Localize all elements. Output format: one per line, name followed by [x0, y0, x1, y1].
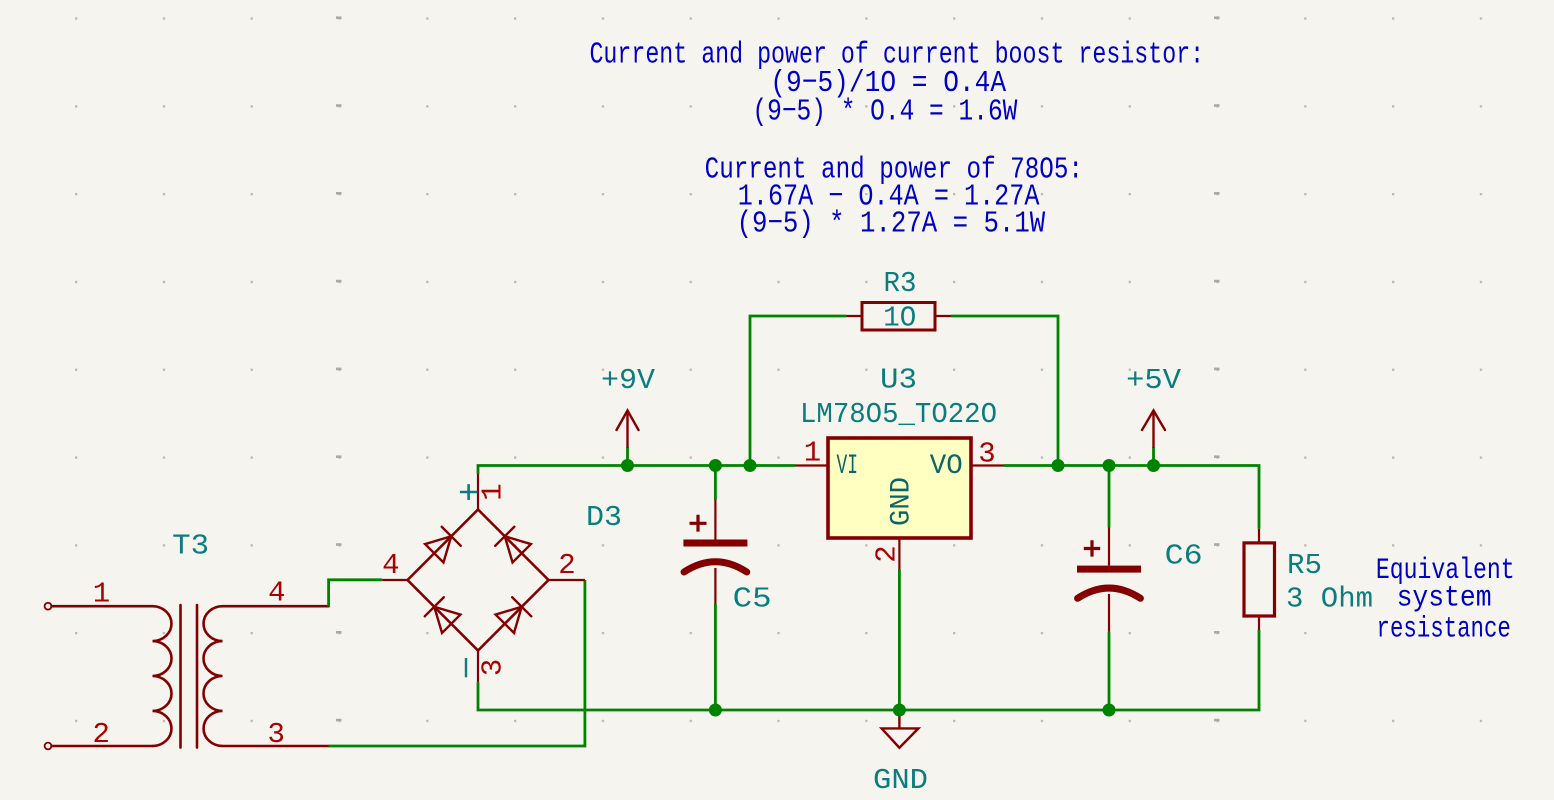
svg-text:2: 2 [870, 545, 903, 562]
junction at GND [893, 704, 906, 717]
bridge diode (2 to 1) [495, 527, 531, 563]
R5 pin stubs [1258, 529, 1260, 630]
svg-text:1: 1 [477, 483, 510, 500]
bridge pin 2 stub [549, 579, 585, 581]
junction at +5V / top rail [1147, 459, 1160, 472]
note: 7805 calculations [705, 153, 1083, 242]
resistor R5 [1244, 543, 1275, 616]
wire: R3 right branch [951, 316, 1058, 466]
wire: T3 pin3 to bridge AC input 2 [329, 580, 585, 746]
junction at R3 right branch [1052, 459, 1065, 472]
R3 pin stubs [846, 315, 951, 317]
svg-text:system: system [1397, 582, 1492, 616]
svg-text:2: 2 [92, 718, 109, 751]
wire: C5 top stub [714, 466, 717, 501]
capacitor C5 [683, 500, 747, 604]
junction at R3 left branch [744, 459, 757, 472]
wire: +9V stub [626, 447, 629, 466]
svg-text:R5: R5 [1287, 549, 1322, 582]
svg-text:1: 1 [804, 437, 821, 470]
svg-text:(9−5) * 1.27A = 5.1W: (9−5) * 1.27A = 5.1W [737, 206, 1046, 241]
power symbol +5V [1142, 411, 1165, 448]
svg-text:+9V: +9V [601, 364, 656, 397]
wire: bridge - output to bottom rail [478, 630, 1259, 710]
svg-text:1: 1 [93, 578, 110, 611]
bridge pin 4 stub [382, 579, 407, 581]
svg-text:1O: 1O [883, 301, 916, 334]
svg-text:GND: GND [887, 477, 918, 526]
svg-text:U3: U3 [880, 364, 917, 397]
svg-text:2: 2 [558, 549, 575, 582]
ground symbol GND [882, 710, 919, 748]
wire: T3 pin4 to bridge AC input [329, 580, 383, 606]
bridge diode (4 to 1) [425, 527, 461, 563]
bridge minus mark [465, 658, 467, 677]
wire: C6 top stub [1108, 466, 1111, 528]
resistor R3 [862, 303, 935, 331]
wire: R3 left branch [750, 316, 846, 466]
note: current boost resistor calculations [589, 38, 1204, 130]
bridge plus mark [460, 484, 478, 500]
junction at C5 top [709, 459, 722, 472]
wire: +5V stub [1152, 447, 1155, 466]
transformer T3 [45, 603, 329, 750]
regulator U3 body [828, 438, 971, 538]
svg-text:R3: R3 [884, 267, 917, 300]
svg-text:VI: VI [837, 451, 859, 482]
junction at C6 top [1103, 459, 1116, 472]
svg-text:3: 3 [978, 438, 995, 471]
svg-text:D3: D3 [586, 501, 622, 534]
wire: bridge + output to top rail [478, 466, 795, 475]
svg-text:4: 4 [382, 549, 399, 582]
bridge pin 1 stub [477, 474, 479, 510]
svg-text:GND: GND [873, 764, 928, 797]
junction at C6 bottom [1103, 704, 1116, 717]
bridge diode (3 to 2) [495, 597, 531, 633]
bridge pin 3 stub [477, 651, 479, 683]
svg-text:3 Ohm: 3 Ohm [1286, 583, 1373, 616]
svg-text:C6: C6 [1165, 540, 1203, 573]
bridge diode (3 to 4) [425, 597, 461, 633]
svg-text:LM78O5_TO22O: LM78O5_TO22O [800, 398, 997, 431]
capacitor C6 [1077, 528, 1141, 632]
U3 pin 3 stub [971, 464, 1004, 466]
power symbol +9V [617, 411, 639, 448]
junction at +9V / top rail [621, 459, 634, 472]
svg-text:4: 4 [268, 577, 285, 610]
svg-text:T3: T3 [172, 530, 209, 563]
wire: U3 GND pin to bottom rail [898, 569, 901, 710]
note: equivalent system resistance [1376, 554, 1515, 647]
junction at C5 bottom [709, 704, 722, 717]
wire: U3 output rail to R5 [1004, 466, 1259, 529]
wire: C6 bottom stub [1108, 632, 1111, 710]
svg-text:C5: C5 [733, 583, 772, 616]
U3 pin 1 stub [795, 464, 828, 466]
svg-text:+5V: +5V [1126, 364, 1182, 397]
svg-text:resistance: resistance [1377, 613, 1511, 647]
svg-text:VO: VO [930, 451, 963, 482]
svg-text:3: 3 [267, 718, 284, 751]
svg-text:3: 3 [477, 659, 510, 676]
svg-text:(9−5) * O.4 = 1.6W: (9−5) * O.4 = 1.6W [752, 94, 1017, 129]
diode bridge D3 [408, 510, 549, 651]
U3 pin 2 stub [898, 538, 900, 569]
wire: C5 bottom stub [714, 604, 717, 710]
